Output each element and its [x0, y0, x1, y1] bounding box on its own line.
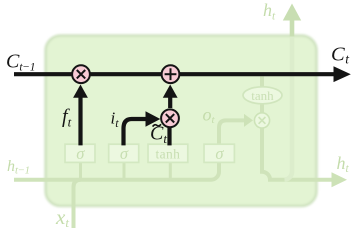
svg-text:σ: σ [76, 144, 85, 163]
svg-text:σ: σ [215, 144, 224, 163]
svg-text:tanh: tanh [251, 88, 274, 103]
svg-text:σ: σ [120, 144, 129, 163]
svg-text:tanh: tanh [155, 146, 180, 161]
